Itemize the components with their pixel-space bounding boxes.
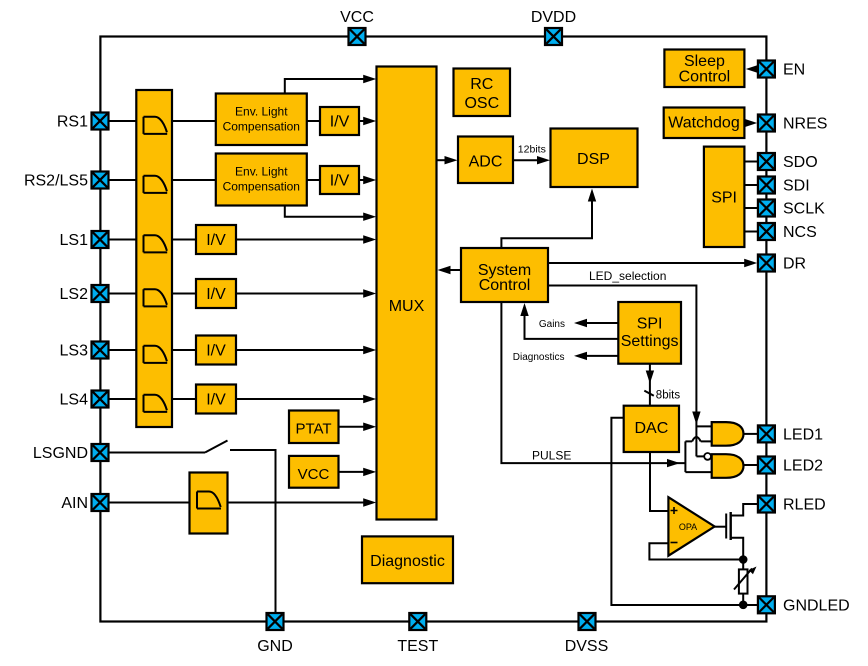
arrowhead into MUX LS3	[363, 346, 376, 354]
pin RS1	[92, 113, 109, 130]
pin SDI	[758, 177, 775, 194]
wire RS1 row	[109, 120, 371, 122]
variable resistor arrow	[734, 569, 752, 590]
op-amp plus sign	[671, 507, 678, 514]
svg-text:TEST: TEST	[397, 638, 438, 655]
svg-text:I/V: I/V	[206, 343, 226, 360]
arrowhead into MUX RS1	[363, 117, 376, 125]
svg-text:Control: Control	[479, 277, 531, 294]
wire SPI settings to DAC 8bits	[649, 364, 651, 406]
PTAT block	[289, 411, 339, 444]
photodiode glyph LS3	[144, 346, 168, 363]
junction node MOSFET source	[739, 555, 748, 564]
svg-text:SDI: SDI	[783, 178, 810, 195]
I/V 2	[320, 166, 359, 194]
AND gate G2	[712, 454, 744, 478]
wire SPI settings to system control	[525, 309, 619, 339]
I/V 1	[320, 107, 359, 135]
wire system control to DR pin	[548, 262, 751, 264]
arrowhead into MUX PTAT	[363, 423, 376, 431]
svg-text:SPI: SPI	[711, 189, 737, 206]
svg-text:DVDD: DVDD	[531, 9, 576, 26]
svg-text:8bits: 8bits	[656, 389, 681, 401]
AND gate G1	[712, 422, 744, 446]
junction node GNDLED	[739, 601, 748, 610]
arrowhead into NRES pin	[744, 119, 757, 127]
pin VCC	[349, 28, 366, 45]
MOSFET channel bar	[730, 512, 732, 540]
ADC block	[458, 137, 513, 184]
photodiode glyph LS4	[144, 395, 168, 412]
svg-text:GND: GND	[257, 638, 293, 655]
wire AIN row	[109, 502, 371, 504]
svg-text:I/V: I/V	[330, 173, 350, 190]
SPI block	[704, 147, 745, 247]
arrowhead into DR pin	[744, 259, 757, 267]
pin TEST	[409, 613, 426, 630]
arrowhead into MUX right from system control	[438, 266, 451, 274]
svg-text:SPI: SPI	[637, 316, 663, 333]
AIN photodiode block	[190, 473, 228, 534]
pin NCS	[758, 223, 775, 240]
chip boundary	[100, 37, 766, 622]
wire RS2 row	[109, 179, 371, 181]
arrowhead into MUX LS2	[363, 289, 376, 297]
wire gate1 output to LED1	[744, 433, 759, 435]
svg-text:VCC: VCC	[340, 9, 374, 26]
inverter bubble on gate G2 input	[704, 453, 711, 460]
wire OPA output to gate	[715, 526, 727, 528]
svg-text:RS2/LS5: RS2/LS5	[24, 173, 88, 190]
svg-text:OPA: OPA	[679, 522, 697, 532]
pin DVSS	[579, 613, 596, 630]
svg-text:VCC: VCC	[298, 466, 330, 483]
I/V 5	[196, 336, 236, 365]
arrowhead into MUX env2	[363, 213, 376, 221]
svg-text:Watchdog: Watchdog	[668, 115, 739, 132]
pin SCLK	[758, 200, 775, 217]
8bits slash	[644, 391, 654, 396]
svg-text:Diagnostic: Diagnostic	[370, 553, 445, 570]
switch blade	[205, 441, 228, 453]
pin AIN	[92, 494, 109, 511]
svg-text:Settings: Settings	[621, 333, 679, 350]
svg-text:LS1: LS1	[60, 232, 89, 249]
photodiode glyph LS1	[144, 235, 168, 252]
svg-text:ADC: ADC	[469, 154, 503, 171]
arrowhead into MUX RS2	[363, 176, 376, 184]
photodiode glyph AIN	[197, 492, 221, 509]
wire LSGND to switch	[109, 452, 206, 454]
arrowhead into DSP bottom	[588, 189, 596, 202]
wire SPI to NCS	[744, 231, 758, 233]
SPI settings block	[618, 302, 681, 364]
wire MOSFET source to node	[731, 538, 744, 560]
wire LS1 row	[109, 239, 371, 241]
wire SPI to SDO	[744, 161, 758, 163]
wire MOSFET drain to RLED	[731, 504, 758, 516]
arrowhead PULSE right	[667, 459, 680, 467]
svg-text:LS2: LS2	[60, 286, 89, 303]
wire LS3 row	[109, 349, 371, 351]
wire MUX to ADC	[437, 159, 452, 161]
svg-text:SDO: SDO	[783, 154, 818, 171]
wire DAC to OPA noninverting input	[650, 452, 668, 511]
pin LS1	[92, 231, 109, 248]
svg-text:AIN: AIN	[61, 495, 88, 512]
svg-text:DSP: DSP	[577, 151, 610, 168]
wire resistor to GNDLED node	[742, 594, 744, 605]
svg-text:LED2: LED2	[783, 458, 823, 475]
svg-text:PULSE: PULSE	[532, 449, 571, 463]
pin EN	[758, 61, 775, 78]
MUX block	[377, 67, 437, 520]
wire SPI settings gains stub	[580, 322, 618, 324]
svg-text:DAC: DAC	[635, 420, 669, 437]
wire EN to sleep control	[752, 68, 758, 70]
I/V 6	[196, 385, 236, 414]
wire hop over LED_selection	[685, 437, 711, 441]
svg-text:DVSS: DVSS	[565, 638, 609, 655]
wire gate input bracket	[685, 441, 711, 472]
wire LS4 row	[109, 398, 371, 400]
pins	[92, 28, 775, 630]
arrowhead LED_selection down	[692, 412, 700, 425]
pin DR	[758, 255, 775, 272]
DSP block	[551, 129, 638, 188]
arrowhead into MUX env1	[363, 75, 376, 83]
wire feedback node to OPA inverting input	[649, 543, 743, 559]
svg-text:Gains: Gains	[539, 319, 565, 330]
svg-text:Compensation: Compensation	[223, 120, 300, 134]
svg-text:LS3: LS3	[60, 343, 89, 360]
wire PTAT to MUX	[339, 426, 371, 428]
svg-text:LS4: LS4	[60, 392, 89, 409]
arrowhead into MUX VCC	[363, 468, 376, 476]
watchdog block	[664, 108, 745, 139]
op-amp minus sign	[671, 542, 678, 544]
svg-text:I/V: I/V	[206, 286, 226, 303]
pin LED1	[758, 425, 775, 442]
svg-text:RLED: RLED	[783, 497, 826, 514]
svg-text:SCLK: SCLK	[783, 201, 825, 218]
svg-text:RC: RC	[470, 76, 493, 93]
svg-text:LED1: LED1	[783, 426, 823, 443]
wire system control to MUX	[444, 269, 461, 271]
arrowhead diagnostics left	[574, 352, 587, 360]
pin SDO	[758, 153, 775, 170]
pin GND	[267, 613, 284, 630]
photodiode glyph LS2	[144, 289, 168, 306]
sleep control block	[664, 50, 744, 88]
svg-text:I/V: I/V	[330, 114, 350, 131]
pin GNDLED	[758, 596, 775, 613]
diagnostic block	[362, 536, 453, 583]
svg-text:Diagnostics: Diagnostics	[513, 352, 565, 363]
photodiode glyph RS2	[144, 176, 168, 193]
arrowhead into DSP	[537, 156, 550, 164]
photodiode glyph RS1	[144, 117, 168, 134]
wire gate2 output to LED2	[744, 464, 759, 466]
I/V 4	[196, 279, 236, 308]
wire env2 bottom to MUX	[285, 206, 370, 217]
pin RS2/LS5	[92, 172, 109, 189]
arrowhead gains left	[574, 319, 587, 327]
pin RLED	[758, 496, 775, 513]
variable resistor RLED	[739, 569, 748, 593]
pin LS2	[92, 285, 109, 302]
arrowhead into MUX LS1	[363, 235, 376, 243]
pin NRES	[758, 115, 775, 132]
wire LED_selection net	[548, 286, 712, 457]
wire SPI to SCLK	[744, 207, 758, 209]
wire DAC left to GNDLED	[611, 418, 758, 605]
svg-text:EN: EN	[783, 62, 805, 79]
svg-text:I/V: I/V	[206, 232, 226, 249]
svg-text:MUX: MUX	[389, 298, 425, 315]
arrowhead into MUX AIN	[363, 498, 376, 506]
svg-text:GNDLED: GNDLED	[783, 597, 850, 614]
svg-text:RS1: RS1	[57, 114, 88, 131]
svg-text:NCS: NCS	[783, 224, 817, 241]
svg-text:LED_selection: LED_selection	[589, 269, 666, 283]
wire node to resistor	[742, 560, 744, 570]
pin LS4	[92, 391, 109, 408]
wire switch to GND pin	[230, 450, 276, 613]
arrowhead into system control bottom	[520, 303, 528, 316]
arrowhead into sleep control from EN	[746, 65, 759, 73]
env light compensation 1	[216, 94, 307, 146]
svg-text:Compensation: Compensation	[223, 180, 300, 194]
photodiode array block	[136, 90, 172, 427]
arrowhead into ADC	[445, 156, 458, 164]
arrowhead 8bits down	[646, 371, 654, 384]
wire ADC to DSP	[513, 159, 544, 161]
svg-text:Control: Control	[679, 68, 731, 85]
wire PULSE net	[501, 302, 685, 463]
wire system control to DSP	[501, 195, 592, 248]
system control block	[461, 248, 548, 302]
wire LS2 row	[109, 293, 371, 295]
svg-text:Env. Light: Env. Light	[235, 164, 288, 178]
RC OSC block	[454, 69, 511, 117]
I/V 3	[196, 225, 236, 254]
VCC reference block	[289, 456, 339, 488]
wire SPI settings diagnostics stub	[580, 355, 618, 357]
svg-text:DR: DR	[783, 256, 806, 273]
wire VCC block to MUX	[339, 471, 371, 473]
DAC block	[624, 406, 679, 452]
svg-text:12bits: 12bits	[518, 144, 546, 156]
wire watchdog to NRES	[744, 122, 751, 124]
svg-text:Env. Light: Env. Light	[235, 104, 288, 118]
svg-text:NRES: NRES	[783, 116, 827, 133]
svg-text:LSGND: LSGND	[33, 445, 88, 462]
pin LED2	[758, 457, 775, 474]
op-amp OPA	[668, 497, 714, 556]
wire SPI to SDI	[744, 184, 758, 186]
env light compensation 2	[216, 154, 307, 206]
svg-text:PTAT: PTAT	[295, 420, 331, 437]
svg-text:OSC: OSC	[464, 95, 499, 112]
arrowhead into MUX LS4	[363, 395, 376, 403]
wire env1 top to MUX	[285, 79, 370, 94]
MOSFET gate bar	[725, 514, 727, 539]
pin LSGND	[92, 444, 109, 461]
pin LS3	[92, 342, 109, 359]
pin DVDD	[545, 28, 562, 45]
svg-text:I/V: I/V	[206, 392, 226, 409]
